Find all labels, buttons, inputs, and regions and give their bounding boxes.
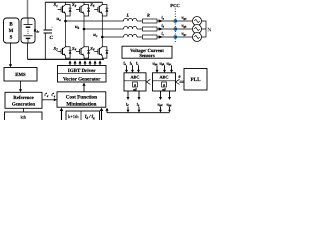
node a junction dot: [64, 20, 67, 23]
Reference Generation box: [5, 92, 42, 108]
wire dot c to source: [175, 36, 192, 38]
EMS box: [4, 68, 37, 82]
svg-text:C: C: [50, 35, 54, 41]
wire kth to Reference: [23, 108, 25, 112]
arrow Cost to Driver: [83, 85, 85, 92]
battery box BT: [21, 18, 35, 43]
current arrow ic: [159, 35, 163, 38]
svg-text:uc: uc: [93, 32, 98, 38]
PCC dotted line: [174, 9, 176, 43]
svg-text:+: +: [51, 26, 53, 30]
svg-text:uga: uga: [153, 60, 159, 66]
ABC->dq box 1: [124, 73, 146, 91]
hollow arrow ABC2 to ABC1: [147, 79, 153, 84]
svg-text:Voltage/ Current: Voltage/ Current: [130, 48, 164, 54]
svg-text:Reference: Reference: [13, 95, 33, 101]
svg-text:S3: S3: [72, 2, 77, 8]
hollow arrow PLL to ABC2: [176, 79, 184, 84]
kth box: [5, 112, 43, 122]
IGBT Driver / Vector Generator box: [58, 66, 107, 83]
svg-text:S4: S4: [72, 46, 77, 52]
svg-text:i*d: i*d: [45, 93, 49, 98]
DC- bottom rail: [28, 58, 105, 60]
svg-text:θ: θ: [179, 75, 181, 79]
svg-text:PCC: PCC: [170, 3, 179, 8]
sensor arrows into ABC2: [156, 65, 174, 73]
neutral bus N: [202, 21, 207, 37]
resistor Rc: [143, 35, 158, 39]
svg-text:kth: kth: [20, 115, 26, 120]
measurement bus up to Cost: [106, 110, 108, 113]
AC source b: [193, 25, 202, 34]
svg-text:Sensors: Sensors: [139, 53, 155, 59]
svg-text:ic: ic: [162, 32, 165, 37]
node b junction dot: [83, 28, 86, 31]
wire b mid: [137, 28, 175, 30]
battery wire to top edge: [27, 0, 29, 18]
current arrow ib: [159, 27, 163, 30]
phase b line: [84, 28, 124, 30]
svg-text:ua: ua: [57, 16, 62, 22]
resistor Rb: [143, 27, 158, 31]
arrow k+1 left up to Cost: [61, 110, 63, 120]
arrow k+1 right up to Cost: [101, 110, 103, 120]
svg-text:uga: uga: [182, 16, 188, 21]
svg-text:αβ: αβ: [133, 87, 137, 91]
gate signal arrows (7): [69, 60, 102, 65]
svg-text:ugd: ugd: [158, 102, 163, 107]
wire dot a to source: [175, 20, 192, 22]
ABC1 drops to bus: [127, 107, 141, 113]
node b (blue): [173, 27, 177, 31]
phase a line: [66, 20, 124, 22]
sensor arrows into ABC1: [125, 65, 140, 73]
node a (blue): [173, 19, 177, 23]
svg-text:PLL: PLL: [190, 77, 201, 83]
ABC2 drops to bus: [159, 107, 171, 113]
svg-text:ugc: ugc: [167, 60, 173, 66]
svg-text:S5: S5: [90, 2, 95, 8]
inductor Lb: [124, 26, 138, 29]
wire battery to bottom rail: [27, 43, 29, 59]
svg-text:Vector Generator: Vector Generator: [63, 76, 101, 82]
svg-text:R: R: [147, 13, 150, 18]
svg-text:ia: ia: [162, 16, 165, 21]
svg-text:îa: îa: [124, 60, 127, 66]
svg-text:S6: S6: [90, 46, 95, 52]
svg-text:îq: îq: [137, 102, 140, 107]
svg-text:Generation: Generation: [12, 102, 36, 108]
inductor Lc: [124, 34, 138, 37]
IGBT S1: [58, 2, 72, 16]
wire dot b to source: [175, 28, 192, 30]
AC source a: [193, 17, 202, 26]
ABC->dq box 2: [153, 73, 176, 91]
inductor La: [124, 18, 138, 21]
IGBT S6: [94, 44, 108, 58]
svg-text:L: L: [126, 13, 130, 18]
resistor Ra: [143, 19, 158, 23]
PLL box: [184, 69, 207, 91]
svg-text:îb: îb: [130, 60, 133, 66]
svg-text:EMS: EMS: [15, 72, 26, 78]
svg-text:îd: îd: [126, 102, 129, 107]
k+1th prediction box: [66, 111, 100, 121]
wire a mid: [137, 20, 175, 22]
svg-text:ABC: ABC: [159, 75, 168, 80]
inverter leg a vertical: [65, 2, 67, 59]
svg-text:ub: ub: [75, 24, 80, 30]
wire c mid: [137, 36, 175, 38]
svg-text:αβ: αβ: [162, 87, 166, 91]
svg-text:S2: S2: [54, 46, 59, 52]
ABC1 output arrows: [127, 91, 141, 100]
IGBT S3: [76, 2, 90, 16]
arrow Reference to Cost (id* iq*): [42, 99, 55, 101]
IGBT S2: [58, 44, 72, 58]
DC link rail with capacitor C: [44, 2, 46, 59]
current arrow ia: [159, 19, 163, 22]
Cost Function Minimization box: [57, 92, 106, 107]
svg-text:M: M: [9, 28, 14, 34]
battery symbol: [24, 19, 33, 43]
svg-text:îc: îc: [136, 60, 139, 66]
svg-text:ugb: ugb: [160, 60, 166, 66]
svg-text:IGBT Driver: IGBT Driver: [68, 68, 97, 74]
phase c line: [102, 36, 123, 38]
svg-text:ABC: ABC: [130, 75, 139, 80]
arrow EMS to Reference: [20, 81, 22, 90]
svg-text:S1: S1: [54, 2, 59, 8]
svg-text:ugq: ugq: [167, 102, 172, 107]
svg-text:ugb: ugb: [182, 24, 188, 29]
svg-text:N: N: [207, 27, 212, 33]
svg-text:S: S: [10, 35, 13, 41]
inverter leg b vertical: [83, 2, 85, 59]
measurement bus horizontal: [107, 112, 170, 114]
svg-text:Cost Function: Cost Function: [66, 95, 97, 101]
DC+ top rail: [45, 1, 102, 3]
AC source c: [193, 33, 202, 42]
svg-text:ugc: ugc: [182, 32, 188, 37]
node c (blue): [173, 35, 177, 39]
IGBT S4: [76, 44, 90, 58]
inverter leg c vertical: [101, 2, 103, 59]
Voltage/Current Sensors box: [122, 46, 172, 58]
svg-text:k+1th: k+1th: [68, 114, 79, 119]
ABC2 output arrows: [159, 91, 171, 100]
node c junction dot: [101, 36, 104, 39]
svg-text:ib: ib: [162, 24, 165, 29]
IGBT S5: [94, 2, 108, 16]
BMS box: [4, 18, 20, 43]
svg-text:i*q: i*q: [52, 93, 56, 98]
svg-text:Minimization: Minimization: [66, 101, 96, 107]
wire BMS down to EMS (arrow): [10, 43, 12, 65]
